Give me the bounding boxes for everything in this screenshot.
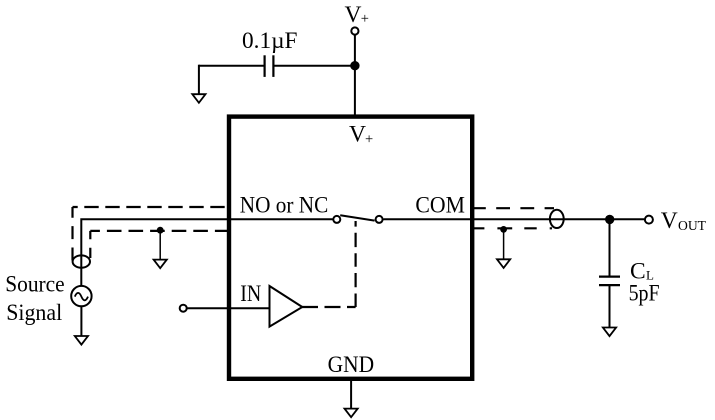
svg-text:GND: GND bbox=[328, 352, 375, 378]
svg-text:Signal: Signal bbox=[6, 300, 62, 326]
svg-text:+: + bbox=[361, 11, 369, 27]
svg-text:COM: COM bbox=[415, 193, 465, 219]
svg-text:5pF: 5pF bbox=[629, 280, 660, 306]
svg-text:+: + bbox=[365, 132, 373, 148]
svg-text:NO or NC: NO or NC bbox=[240, 192, 328, 218]
svg-text:V: V bbox=[661, 208, 678, 234]
svg-text:Source: Source bbox=[5, 272, 64, 298]
svg-text:OUT: OUT bbox=[678, 219, 706, 234]
svg-text:V: V bbox=[345, 2, 362, 28]
svg-text:V: V bbox=[349, 122, 366, 148]
svg-text:IN: IN bbox=[240, 281, 261, 307]
svg-text:0.1µF: 0.1µF bbox=[242, 28, 298, 54]
